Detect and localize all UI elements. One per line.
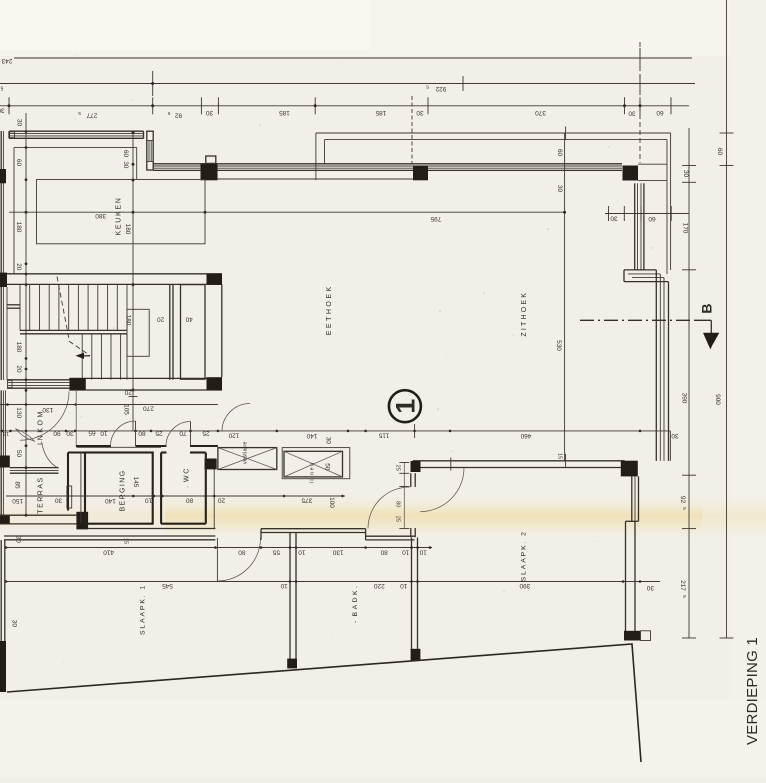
inkom hall dim line y=404.5 [0,404,218,406]
vestiaire closet [218,448,277,470]
svg-text:60: 60 [716,148,723,156]
corridor dim chain y=430.9 [0,430,670,432]
wall inner face north [218,178,429,180]
svg-text:30: 30 [66,429,74,436]
stairs walk line [57,277,90,356]
svg-text:30: 30 [682,170,689,178]
svg-text:80: 80 [238,549,246,556]
svg-text:170: 170 [682,223,689,234]
inkom north pier [69,378,85,390]
svg-text:243: 243 [1,57,12,64]
svg-text:15: 15 [557,453,563,459]
zithoek outer corner lines [670,133,672,270]
svg-text:180: 180 [124,315,131,326]
svg-text:40: 40 [185,316,193,323]
stairs lower flight treads [81,334,83,380]
svg-text:SLAAPK. 2: SLAAPK. 2 [520,530,527,581]
svg-text:120: 120 [228,432,239,439]
svg-text:60: 60 [15,159,22,167]
terras door arc [42,442,59,469]
svg-text:30: 30 [325,437,332,445]
svg-text:5: 5 [167,110,170,116]
site boundary diagonal [7,644,641,762]
closet nook door arc [222,404,250,432]
interior dim vertical x=564.6 (530) [564,133,566,461]
svg-text:ZITHOEK: ZITHOEK [521,291,528,337]
svg-text:50: 50 [15,450,22,458]
badk east wall foot [411,649,421,661]
svg-text:INKOM: INKOM [38,409,45,445]
svg-text:80: 80 [380,549,388,556]
svg-text:530: 530 [555,340,562,351]
stairs mid rail [20,329,127,331]
badk west wall foot [287,659,297,669]
zithoek NE corner pier [623,166,639,181]
svg-text:20: 20 [124,389,132,396]
badk east wall [411,538,413,652]
svg-text:545: 545 [162,582,173,589]
interior dim line y=212 (380 / 795) [9,211,565,213]
svg-text:20: 20 [157,316,165,323]
svg-text:10: 10 [145,497,153,504]
svg-text:60: 60 [122,150,129,158]
slaapk2 SE pier [624,631,641,641]
svg-text:25: 25 [394,465,400,471]
svg-text:217: 217 [679,580,686,591]
inkom door arc 1 [20,391,69,440]
svg-text:KEUKEN: KEUKEN [115,197,122,236]
svg-text:390: 390 [681,393,688,404]
window band B (north wall, keuken to bay) [153,163,622,165]
svg-text:10: 10 [419,549,427,556]
keuken north wall inner face [14,146,137,148]
pier with flue box [201,163,218,180]
berging room [85,453,153,524]
slaapk2 east window [631,476,633,521]
svg-text:150: 150 [12,497,23,504]
svg-text:220: 220 [373,582,384,589]
svg-text:TERRAS: TERRAS [38,476,45,513]
west wall terras [0,468,2,516]
svg-text:5: 5 [78,110,81,116]
svg-text:85: 85 [13,481,20,489]
svg-text:5: 5 [681,507,687,510]
svg-text:277: 277 [86,112,97,119]
level circle 1 [389,390,421,422]
svg-text:1: 1 [390,399,420,414]
svg-text:30: 30 [646,584,654,591]
svg-text:25: 25 [202,429,210,436]
svg-text:10: 10 [402,549,410,556]
berging door arc [111,421,136,446]
svg-text:60: 60 [648,215,656,222]
east window band (zithoek) [634,183,636,270]
west wall pier 3 [0,456,10,468]
svg-text:30: 30 [416,109,424,116]
slaapk2 north wall [413,460,625,462]
svg-text:270: 270 [143,404,154,411]
svg-text:5: 5 [681,595,687,598]
svg-text:65: 65 [88,429,96,436]
svg-text:WC: WC [183,467,190,482]
svg-text:30: 30 [206,109,214,116]
svg-text:10: 10 [400,582,408,589]
svg-text:180: 180 [124,224,131,235]
svg-text:EETHOEK: EETHOEK [326,284,333,335]
svg-text:55: 55 [272,549,280,556]
svg-text:30: 30 [556,185,563,193]
window band A (keuken north wall) [9,130,144,132]
berging outer faces [77,446,161,448]
svg-text:900: 900 [714,394,721,405]
right dimension chain x=689 [688,128,690,638]
svg-text:30: 30 [122,161,129,169]
zithoek NE window dim line [605,213,689,215]
svg-text:80: 80 [138,429,146,436]
stairwell east wall [169,285,171,380]
svg-text:922: 922 [435,85,446,92]
eethoek bay inner line [325,139,668,141]
svg-text:50: 50 [324,463,331,471]
stair outer east face [221,284,223,377]
svg-text:115: 115 [378,432,389,439]
closets outer box [282,448,350,479]
svg-text:B: B [698,303,714,313]
dimension line 243 (top) [14,57,692,59]
svg-text:20: 20 [218,497,226,504]
svg-text:795: 795 [430,215,441,222]
stairs direction arrow [77,355,90,357]
svg-text:140: 140 [105,497,116,504]
svg-text:80: 80 [394,501,400,507]
keuken counter [37,180,206,244]
west wall pier 2 [0,273,7,287]
svg-text:10: 10 [100,429,108,436]
wc right outer face [213,459,215,529]
svg-text:25: 25 [155,429,163,436]
svg-text:30: 30 [671,432,679,439]
svg-text:-: - [352,621,359,623]
inkom north pier 2 [207,377,223,390]
shaft [181,285,206,380]
svg-text:180: 180 [15,222,22,233]
dim tie x=133 inkom [132,390,134,431]
slaapk1 west wall pier [0,641,6,692]
window sill band (under stairs) [7,379,69,381]
slaapk1 door arc [217,538,260,581]
svg-text:92: 92 [175,112,183,119]
wall keuken-stairs [7,273,222,275]
terras east wall [67,453,69,511]
berging SW corner pier [76,512,88,530]
bay pier [413,166,428,181]
dim vertical x=26 (left chain) [25,113,27,515]
terras SW corner [0,515,10,524]
svg-text:25: 25 [394,516,400,522]
svg-text:vestiaire: vestiaire [243,441,249,464]
svg-text:30: 30 [16,119,23,127]
east wall step [624,269,656,271]
svg-text:60: 60 [556,149,563,157]
slaapk2 east wall lower [625,521,627,631]
svg-text:100: 100 [328,497,335,508]
dim vertical x=133 [132,132,134,391]
svg-text:SLAAPK. 1: SLAAPK. 1 [139,584,146,635]
corridor south wall mid [261,528,366,530]
inkom door leaf lens [16,429,35,441]
east wall (zithoek, vertical) [655,270,657,461]
slaapk1 west wall [0,540,2,641]
badk west wall [289,533,291,659]
west wall inkom [0,390,2,455]
svg-text:390: 390 [519,582,530,589]
wc door arc [166,422,191,447]
corridor top wall segments [76,445,111,447]
dimension line 922.5 [0,83,695,85]
svg-text:380: 380 [95,212,106,219]
svg-text:30: 30 [10,620,17,628]
stair well void [127,309,149,356]
svg-text:140: 140 [306,432,317,439]
svg-text:20: 20 [15,365,22,373]
svg-text:460: 460 [520,432,531,439]
svg-text:10: 10 [298,549,306,556]
dim ties NE [565,127,567,140]
svg-text:BADK.: BADK. [352,584,359,617]
west wall stairwell [0,287,2,380]
yellow scan band [0,496,766,538]
svg-text:80: 80 [186,497,194,504]
svg-text:145: 145 [132,477,139,488]
terras south wall [0,514,76,516]
svg-text:185: 185 [375,109,386,116]
svg-text:130: 130 [15,407,22,418]
svg-text:VERDIEPING 1: VERDIEPING 1 [744,637,761,745]
rooms bottom outer face [88,528,215,530]
svg-text:15: 15 [122,538,128,544]
vertical tie line at x=640 [639,42,641,163]
rooms dim line y=496 [6,495,345,497]
corner jog window (north-east of keuken) [147,131,153,170]
stair landing rail at west wall [7,304,20,306]
svg-text:90: 90 [53,429,61,436]
west wall upper (keuken) [0,131,2,287]
svg-text:92: 92 [679,496,686,504]
slaapk2 door arc (north) [420,468,464,512]
slaapk2 west wall [410,473,412,487]
svg-text:BERGING: BERGING [119,469,126,511]
svg-text:185: 185 [279,109,290,116]
svg-text:375: 375 [301,496,312,503]
dim chain y=581.5 [6,581,660,583]
wc room [160,453,162,524]
svg-text:30: 30 [55,497,63,504]
section marker B corner [695,319,712,321]
svg-text:10: 10 [280,582,288,589]
eethoek bay outer line [316,132,671,134]
svg-text:370: 370 [535,109,546,116]
slaapk2-badk door arc [368,487,410,529]
svg-text:20: 20 [15,263,22,271]
stair wall corner pier [207,274,223,285]
svg-text:5: 5 [0,84,3,90]
svg-text:70: 70 [179,429,187,436]
svg-text:410: 410 [103,549,114,556]
svg-text:30: 30 [610,215,618,222]
svg-text:5: 5 [426,84,429,90]
section arrow [703,333,719,349]
corridor south wall left [4,535,215,537]
svg-text:30: 30 [628,110,636,117]
lijnen closet [284,451,343,477]
wc NE pier [205,459,217,470]
svg-text:15: 15 [3,430,9,436]
svg-text:60: 60 [656,109,664,116]
svg-text:180: 180 [15,342,22,353]
stairs upper flight treads [19,285,21,331]
west wall pier 1 [0,169,6,183]
terras north window [10,467,59,469]
slaapk2 NE pier [621,461,638,477]
door dim ticks x=404.3 [403,462,405,529]
vertical tie line at x=412 [411,96,413,164]
svg-text:105: 105 [123,404,130,415]
inkom north wall [69,377,206,379]
dim chain y=547.5 [6,547,432,549]
inkom east edge line [75,391,77,447]
svg-text:lijnen: lijnen [309,461,315,483]
section line B-B [580,319,695,321]
dimension chain line (top, 277.5/92.5/30/185/185/30/370/30/60) [0,105,689,107]
svg-text:130: 130 [332,549,343,556]
slaapk2 NW pier [411,461,421,472]
right border dimension line x=726.5 (900) [726,0,728,638]
corridor south wall step [365,529,367,540]
svg-text:30: 30 [0,107,5,114]
